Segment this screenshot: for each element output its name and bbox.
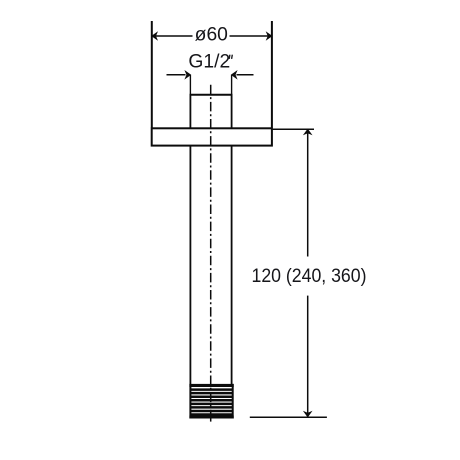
dimension 120: bottom arrowhead pointing down <box>304 412 312 417</box>
centerline bottom tail <box>210 417 212 421</box>
threaded end: top band <box>189 384 233 387</box>
dimension ø60: dimension line right segment <box>230 35 272 37</box>
dimension ø60: left extension line <box>151 21 153 128</box>
svg-text:120 (240, 360): 120 (240, 360) <box>252 266 367 287</box>
thread stub: right side <box>231 95 233 129</box>
pipe: right side <box>231 146 233 385</box>
dimension G1/2": double prime mark <box>229 55 232 59</box>
thread stub: left side <box>189 95 191 129</box>
threaded end: thread crest lines <box>190 390 233 415</box>
svg-text:G1/2: G1/2 <box>188 52 230 73</box>
centerline (dash-dot axis) <box>210 85 212 417</box>
dimension ø60: right extension line <box>271 21 273 128</box>
threaded end: right side band <box>232 384 234 419</box>
dimension G1/2": right arrowhead pointing left <box>231 71 236 79</box>
threaded end: bottom band <box>189 416 233 419</box>
pipe: left side <box>189 146 191 385</box>
svg-text:ø60: ø60 <box>195 25 228 46</box>
flange plate <box>152 128 272 145</box>
dimension G1/2": right extension line <box>231 75 233 95</box>
dimension 120: bottom extension line <box>250 416 327 418</box>
dimension G1/2": left arrowhead pointing right <box>185 71 190 79</box>
dimension G1/2": left extension line <box>189 75 191 95</box>
dimension G1/2": dimension line left tail <box>167 74 186 76</box>
dimension ø60: right arrowhead <box>267 32 272 40</box>
dimension ø60: dimension line left segment <box>153 35 193 37</box>
dimension 120: vertical line upper segment <box>307 129 309 256</box>
dimension 120: top arrowhead pointing up <box>304 129 312 134</box>
dimension ø60: left arrowhead <box>152 32 157 40</box>
dimension G1/2": dimension line right tail <box>237 74 254 76</box>
dimension 120: vertical line lower segment <box>307 296 309 417</box>
thread stub: top edge <box>190 94 233 96</box>
dimension 120: top extension line <box>272 128 314 130</box>
threaded end: left side band <box>189 384 191 419</box>
